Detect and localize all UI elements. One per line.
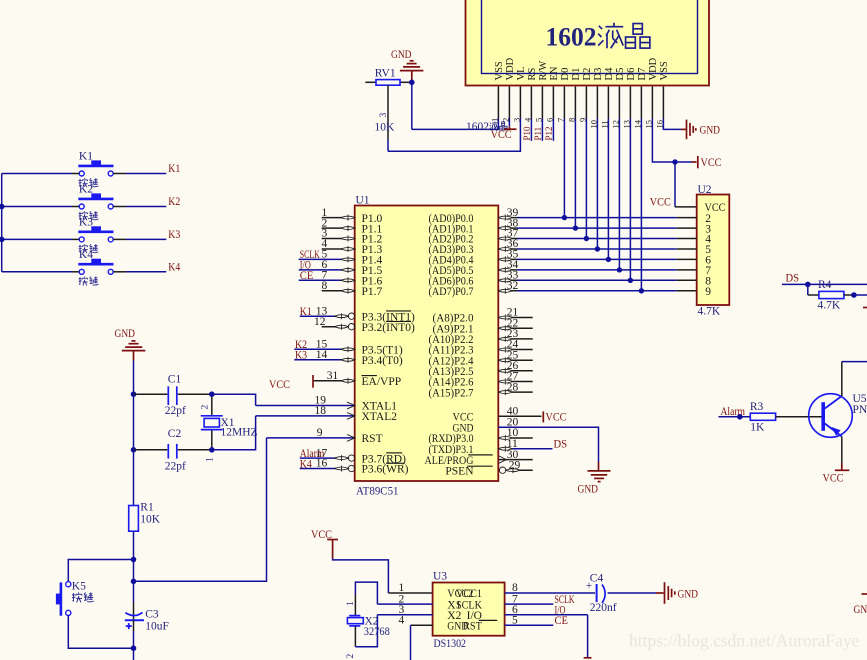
svg-text:P1.7: P1.7 xyxy=(362,286,383,298)
svg-text:28: 28 xyxy=(507,381,519,393)
wire LCD pin1 VSS to GND junction xyxy=(412,119,499,130)
pin 20 GND wire to ground xyxy=(453,416,599,462)
svg-text:K5: K5 xyxy=(72,581,86,593)
svg-text:EN: EN xyxy=(549,66,560,80)
power VCC terminal at LCD pin2 xyxy=(491,119,517,142)
net label 1602液晶 xyxy=(466,121,507,133)
pin 24 P2.3 xyxy=(429,339,533,357)
pin 19 XTAL1 xyxy=(256,395,355,409)
pin 34 P0.5 xyxy=(429,259,519,277)
svg-text:P11: P11 xyxy=(533,127,543,141)
svg-text:DS: DS xyxy=(554,439,568,451)
wire Alarm to R3 xyxy=(719,416,751,418)
wire U5 emitter to VCC xyxy=(823,437,850,485)
pin 36 P0.3 xyxy=(429,238,519,256)
svg-text:1K: 1K xyxy=(750,421,765,433)
wires LCD D0-D7 verticals xyxy=(564,119,641,291)
junction C2 left xyxy=(131,447,137,453)
junction C3 bottom / K5 bottom xyxy=(131,645,137,651)
wire K3 right with net label K3 xyxy=(113,229,180,241)
svg-text:D6: D6 xyxy=(626,68,637,81)
wire LCD pin16 to GND xyxy=(663,119,686,130)
svg-text:VCC: VCC xyxy=(269,379,290,391)
U3 pin name labels xyxy=(447,588,497,633)
wire K3 left to bus xyxy=(2,238,80,240)
net label I/O xyxy=(300,260,311,272)
svg-text:PNP: PNP xyxy=(853,404,867,416)
U3 pin numbers xyxy=(399,582,518,627)
wire P0.7 to U2 pin 9 xyxy=(517,286,711,298)
wire LCD pin15 to VCC and U2 pin1 xyxy=(652,119,721,170)
svg-text:GND: GND xyxy=(678,589,699,601)
watermark xyxy=(629,631,860,651)
svg-text:3: 3 xyxy=(379,113,389,118)
capacitor C1 22pf xyxy=(134,374,212,418)
svg-text:K2: K2 xyxy=(168,196,180,208)
svg-text:EA/VPP: EA/VPP xyxy=(362,376,402,388)
svg-text:XTAL2: XTAL2 xyxy=(362,411,398,423)
pin 37 P0.2 xyxy=(429,228,519,246)
junction D1 / P0.1 xyxy=(573,225,578,230)
push button K1 按键 xyxy=(78,151,113,188)
wire U3 pin7 SCLK xyxy=(505,594,575,606)
wire P0.4 to U2 pin 6 xyxy=(517,255,711,267)
svg-text:VDD: VDD xyxy=(648,57,659,80)
svg-text:K1: K1 xyxy=(168,163,180,175)
svg-text:14: 14 xyxy=(316,349,328,361)
svg-text:P3.2(INT0): P3.2(INT0) xyxy=(362,322,416,334)
junction D7 / P0.7 xyxy=(639,288,644,293)
wire left bus vertical xyxy=(1,174,3,272)
wire P0.2 to U2 pin 4 xyxy=(517,234,711,246)
svg-text:K3: K3 xyxy=(168,229,180,241)
ground GND top-left xyxy=(115,328,146,361)
svg-text:RST: RST xyxy=(463,621,482,633)
svg-text:D0: D0 xyxy=(560,68,571,81)
svg-text:P10: P10 xyxy=(522,126,532,141)
svg-text:U3: U3 xyxy=(433,571,447,583)
wire X2 bottom to U3 pin3 X2 xyxy=(355,615,432,647)
net label Alarm xyxy=(300,448,325,460)
junction X1 top xyxy=(209,391,215,397)
svg-text:VCC: VCC xyxy=(701,157,722,169)
svg-text:GND: GND xyxy=(115,328,136,340)
pin 27 P2.6 xyxy=(429,371,533,389)
wire VCC to U3 pin1 xyxy=(333,559,433,594)
svg-text:VDD: VDD xyxy=(505,57,516,80)
net label K3 xyxy=(295,350,307,362)
net label DS near R4 xyxy=(786,273,800,285)
svg-text:CE: CE xyxy=(300,270,314,282)
wire K2 right with net label K2 xyxy=(113,196,180,208)
pin 40 VCC with power VCC terminal xyxy=(453,406,567,424)
svg-text:D1: D1 xyxy=(571,68,582,81)
wire U3 pin4 GND down off-page xyxy=(411,625,433,660)
net label VCC at U2 pin1 xyxy=(650,197,671,209)
pin 6 P1.5 xyxy=(299,259,383,277)
LCD pin names VSS VDD VL RS R/W EN D0-D7 VDD VSS xyxy=(494,57,670,80)
push button K2 按键 xyxy=(78,184,113,221)
svg-text:4.7K: 4.7K xyxy=(698,306,721,318)
resistor R4 4.7K xyxy=(808,279,854,311)
pin 4 P1.3 xyxy=(322,238,383,256)
svg-text:D4: D4 xyxy=(604,67,615,81)
pin 5 P1.4 xyxy=(299,249,383,267)
svg-text:8: 8 xyxy=(322,280,328,292)
LCD module 1602液晶 body xyxy=(466,0,710,86)
svg-text:K4: K4 xyxy=(79,249,93,261)
pin 8 P1.7 xyxy=(322,280,383,298)
svg-text:VCC: VCC xyxy=(823,473,844,485)
wire DS to right edge xyxy=(782,283,867,285)
svg-text:2: 2 xyxy=(346,654,356,659)
svg-text:2: 2 xyxy=(200,405,210,410)
wire X2 top to U3 pin2 X1 xyxy=(355,582,432,615)
pin 10 P3.0 xyxy=(429,427,533,445)
wire P0.1 to U2 pin 3 xyxy=(517,223,711,235)
pin 21 P2.0 xyxy=(433,307,533,325)
svg-text:1602: 1602 xyxy=(466,121,489,133)
svg-text:K1: K1 xyxy=(300,306,312,318)
pin 29 PSEN xyxy=(445,459,532,477)
pin 17 P3.7(RD) xyxy=(300,447,355,461)
pin 35 P0.4 xyxy=(429,249,519,267)
svg-text:VCC: VCC xyxy=(546,411,567,423)
svg-text:(AD7)P0.7: (AD7)P0.7 xyxy=(429,286,474,298)
net label P12 xyxy=(544,119,554,141)
junction D3 / P0.3 xyxy=(595,246,600,251)
ground symbol right of LCD pin16 xyxy=(687,120,721,140)
svg-text:PSEN: PSEN xyxy=(445,465,474,477)
svg-text:DS: DS xyxy=(786,273,800,285)
power mark cut at right edge xyxy=(863,307,867,309)
IC U1 AT89C51 body xyxy=(355,195,499,498)
svg-text:4: 4 xyxy=(399,615,405,627)
pin 15 P3.5(T1) xyxy=(294,339,355,353)
wire X1 bottom to XTAL2 xyxy=(212,416,256,450)
svg-text:R/W: R/W xyxy=(538,61,549,81)
svg-text:P3.4(T0): P3.4(T0) xyxy=(362,355,403,367)
svg-text:D3: D3 xyxy=(593,68,604,81)
pin 28 P2.7 xyxy=(429,381,533,399)
svg-text:1: 1 xyxy=(205,457,215,462)
junction D5 / P0.5 xyxy=(617,267,622,272)
capacitor C4 220nf xyxy=(505,572,617,614)
svg-text:https://blog.csdn.net/AuroraFa: https://blog.csdn.net/AuroraFaye xyxy=(629,631,860,651)
pin 32 P0.7 xyxy=(429,280,519,298)
junction RV1/GND/LCD-VSS xyxy=(409,80,415,130)
svg-text:CE: CE xyxy=(555,615,569,627)
crystal X2 32768 xyxy=(346,601,390,659)
svg-text:P12: P12 xyxy=(544,126,554,140)
svg-text:VSS: VSS xyxy=(659,61,670,80)
wire GND down to C1 row xyxy=(133,361,135,395)
wire K4 left to bus xyxy=(2,271,80,273)
capacitor C3 10uF electrolytic xyxy=(125,581,169,648)
svg-text:VCC: VCC xyxy=(650,197,671,209)
net label P10 xyxy=(522,119,532,141)
wire C2 row down to R1 xyxy=(133,450,135,506)
svg-text:(A15)P2.7: (A15)P2.7 xyxy=(429,387,474,399)
capacitor C2 22pf xyxy=(134,428,212,472)
svg-text:DS1302: DS1302 xyxy=(434,638,467,650)
net label P11 xyxy=(533,119,543,141)
pin 25 P2.4 xyxy=(429,349,533,367)
pin 14 P3.4(T0) xyxy=(294,349,355,363)
wire R1 bottom to K5 junction xyxy=(133,531,135,581)
wire P0.6 to U2 pin 8 xyxy=(517,276,711,288)
pin 22 P2.1 xyxy=(433,317,533,335)
svg-text:12MHZ: 12MHZ xyxy=(221,426,258,438)
svg-text:U1: U1 xyxy=(356,195,370,207)
wire K2 left to bus xyxy=(2,206,80,208)
pin 38 P0.1 xyxy=(429,217,519,235)
pin 12 P3.2(INT0) xyxy=(314,316,355,330)
ground symbol right of C4 xyxy=(665,582,675,604)
svg-text:RST: RST xyxy=(362,433,383,445)
svg-text:K4: K4 xyxy=(168,261,180,273)
wire K1 right with net label K1 xyxy=(113,163,180,175)
ground symbol below U1 pin20 xyxy=(578,462,611,496)
ground symbol cut at bottom right edge xyxy=(854,594,867,616)
wire to RST pin of U1 xyxy=(134,438,267,581)
pin 9 RST xyxy=(267,427,356,441)
resistor R1 10K xyxy=(129,502,161,532)
net label Alarm near R3 xyxy=(721,406,746,418)
wire P0.3 to U2 pin 5 xyxy=(517,244,711,256)
wire C4 to ground xyxy=(608,592,664,594)
svg-text:32: 32 xyxy=(507,280,519,292)
net label K1 xyxy=(300,306,312,318)
svg-text:29: 29 xyxy=(509,459,521,471)
pin 18 XTAL2 xyxy=(256,405,355,419)
pin 26 P2.5 xyxy=(429,360,533,378)
svg-text:9: 9 xyxy=(317,427,323,439)
pin 31 EA/VPP with power VCC terminal xyxy=(269,370,355,391)
svg-text:C3: C3 xyxy=(145,609,159,621)
pin 2 P1.1 xyxy=(322,217,383,235)
pin 11 P3.1 with net label DS xyxy=(429,438,568,456)
svg-text:9: 9 xyxy=(705,286,711,298)
svg-text:GND: GND xyxy=(391,49,412,61)
junction bus K3 xyxy=(0,237,5,243)
pin 13 P3.3(INT1) xyxy=(300,305,355,319)
transistor U5 PNP xyxy=(809,393,867,437)
svg-text:K1: K1 xyxy=(79,151,93,163)
svg-text:AT89C51: AT89C51 xyxy=(356,486,399,498)
wire P0.0 to U2 pin 2 xyxy=(517,213,711,225)
svg-text:18: 18 xyxy=(315,405,327,417)
svg-text:4.7K: 4.7K xyxy=(818,299,841,311)
junction D4 / P0.4 xyxy=(606,257,611,262)
svg-text:U2: U2 xyxy=(698,184,712,196)
wire bottom continues off-page xyxy=(133,648,135,660)
svg-text:VSS: VSS xyxy=(494,61,505,80)
pin 23 P2.2 xyxy=(429,328,533,346)
wire U3 pin5 CE xyxy=(505,615,568,627)
svg-text:K3: K3 xyxy=(295,350,307,362)
wire U3 pin6 I/O down to ground stub xyxy=(505,605,592,658)
pin 30 ALE/PROG xyxy=(425,449,533,467)
pin 33 P0.6 xyxy=(429,270,519,288)
junction D6 / P0.6 xyxy=(628,278,633,283)
svg-text:VCC: VCC xyxy=(491,129,512,141)
svg-text:10uF: 10uF xyxy=(145,621,169,633)
IC U3 DS1302 body xyxy=(433,571,505,651)
svg-text:K2: K2 xyxy=(79,184,93,196)
svg-text:10K: 10K xyxy=(375,122,396,134)
resistor R3 1K xyxy=(750,401,822,433)
svg-text:D2: D2 xyxy=(582,68,593,81)
wire LCD pin3 VL to RV1 wiper xyxy=(388,119,520,152)
junction C1 left xyxy=(131,391,137,397)
svg-text:R1: R1 xyxy=(140,502,154,514)
pin 16 P3.6(WR) xyxy=(300,458,355,472)
svg-text:RV1: RV1 xyxy=(375,67,396,79)
junction RST branch xyxy=(131,579,137,585)
svg-text:12: 12 xyxy=(314,316,326,328)
svg-text:D5: D5 xyxy=(615,68,626,81)
svg-text:C4: C4 xyxy=(590,572,604,584)
svg-text:P3.6(WR): P3.6(WR) xyxy=(362,464,409,476)
svg-text:220nf: 220nf xyxy=(590,602,617,614)
junction K5 top branch xyxy=(131,557,137,563)
svg-text:10K: 10K xyxy=(140,514,161,526)
junction DS/R4 xyxy=(805,282,811,288)
svg-text:K3: K3 xyxy=(79,216,93,228)
potentiometer RV1 xyxy=(365,67,409,151)
pin 7 P1.6 xyxy=(299,270,383,288)
power VCC terminal above X2 xyxy=(311,529,338,559)
svg-text:D7: D7 xyxy=(637,68,648,81)
crystal X1 12MHZ xyxy=(200,394,257,462)
pin 39 P0.0 xyxy=(429,207,519,225)
svg-text:1: 1 xyxy=(346,601,356,606)
svg-text:GND: GND xyxy=(578,484,599,496)
push button K4 按键 xyxy=(78,249,113,286)
wire P0.5 to U2 pin 7 xyxy=(517,265,711,277)
junction R4 right xyxy=(851,292,867,298)
svg-text:1602: 1602 xyxy=(546,23,597,52)
junction D0 / P0.0 xyxy=(562,215,567,220)
pin 1 P1.0 xyxy=(322,207,383,225)
wire U5 collector to right edge xyxy=(842,362,867,396)
net label CE xyxy=(300,270,314,282)
wire between C1 and C2 rows xyxy=(133,394,135,450)
ground label GND right of C4 xyxy=(678,589,699,601)
junction D2 / P0.2 xyxy=(584,236,589,241)
svg-text:K4: K4 xyxy=(300,458,312,470)
pin 3 P1.2 xyxy=(322,228,383,246)
svg-text:22pf: 22pf xyxy=(165,405,186,417)
svg-text:C1: C1 xyxy=(168,374,182,386)
push button K5 按键 xyxy=(56,560,134,649)
svg-text:RS: RS xyxy=(527,67,538,80)
svg-text:GND: GND xyxy=(854,604,867,616)
net label K2 xyxy=(295,339,307,351)
junction bus K2 xyxy=(0,204,5,210)
ground GND above RV1 xyxy=(391,49,423,82)
LCD pin numbers 1-16 xyxy=(489,117,664,129)
push button K3 按键 xyxy=(78,216,113,253)
svg-text:R4: R4 xyxy=(818,279,832,291)
junction X1 bottom xyxy=(209,447,215,453)
wire K4 right with net label K4 xyxy=(113,261,180,273)
resistor pack U2 4.7K body xyxy=(697,184,730,318)
svg-text:VL: VL xyxy=(516,67,527,81)
LCD pin stubs 1-16 xyxy=(498,87,663,119)
net label K4 xyxy=(300,458,312,470)
svg-text:GND: GND xyxy=(700,125,721,137)
svg-text:R3: R3 xyxy=(750,401,764,413)
svg-text:16: 16 xyxy=(316,458,328,470)
wire K1 left to bus xyxy=(2,173,80,175)
junction Alarm wire xyxy=(737,414,743,420)
junction VCC/U2 branch xyxy=(672,159,696,207)
wire X1 top to XTAL1 xyxy=(212,394,256,405)
svg-text:31: 31 xyxy=(327,370,339,382)
net label SCLK xyxy=(300,249,320,261)
U1 left pin name labels xyxy=(362,311,416,475)
svg-text:22pf: 22pf xyxy=(165,461,186,473)
svg-text:C2: C2 xyxy=(168,428,182,440)
